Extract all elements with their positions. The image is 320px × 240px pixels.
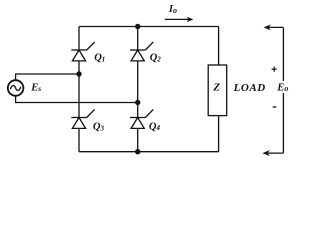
wire right leg upper xyxy=(137,27,139,51)
label + polarity xyxy=(272,67,277,72)
svg-text:Io: Io xyxy=(168,4,177,15)
label Eo xyxy=(276,83,288,94)
voltage bracket Eo bottom arrow xyxy=(262,150,283,156)
node junction dot bottom rail / right leg xyxy=(135,149,140,154)
wire left leg upper xyxy=(78,27,80,51)
wire left leg middle xyxy=(78,61,80,118)
thyristor Q1 xyxy=(71,42,94,61)
label Q3 xyxy=(93,122,105,133)
wire Eo bracket vertical upper xyxy=(282,27,284,81)
voltage bracket Eo top arrow xyxy=(264,24,284,30)
thyristor Q3 xyxy=(71,109,94,128)
wire source bottom stub xyxy=(16,96,138,103)
node junction dot left leg / source top xyxy=(76,71,81,76)
wire left leg lower xyxy=(78,129,80,152)
wire bottom rail xyxy=(79,151,219,153)
wire right side upper (to load) xyxy=(218,27,220,66)
current arrow Io xyxy=(165,17,194,22)
label Z xyxy=(212,82,220,94)
wire source top stub xyxy=(16,74,79,80)
svg-text:Eo: Eo xyxy=(276,83,288,94)
label LOAD xyxy=(233,82,266,94)
wire top rail xyxy=(79,26,219,28)
label Io xyxy=(168,4,177,15)
label Es xyxy=(30,82,41,93)
load Z rectangle xyxy=(208,65,227,116)
label Q4 xyxy=(149,121,161,132)
ac source Es xyxy=(8,80,24,96)
node junction dot top rail / right leg xyxy=(135,24,140,29)
svg-text:Z: Z xyxy=(212,82,220,94)
label - polarity xyxy=(273,106,277,108)
wire right leg middle xyxy=(137,61,139,118)
label Q1 xyxy=(94,53,105,64)
label Q2 xyxy=(150,53,162,64)
thyristor Q2 xyxy=(130,42,153,61)
svg-text:Es: Es xyxy=(30,82,41,93)
node junction dot right leg / source bottom xyxy=(135,100,140,105)
thyristor Q4 xyxy=(130,109,153,128)
svg-text:LOAD: LOAD xyxy=(233,82,266,94)
wire right leg lower xyxy=(137,129,139,152)
wire right side lower (from load) xyxy=(218,116,220,152)
wire Eo bracket vertical lower xyxy=(282,93,284,153)
